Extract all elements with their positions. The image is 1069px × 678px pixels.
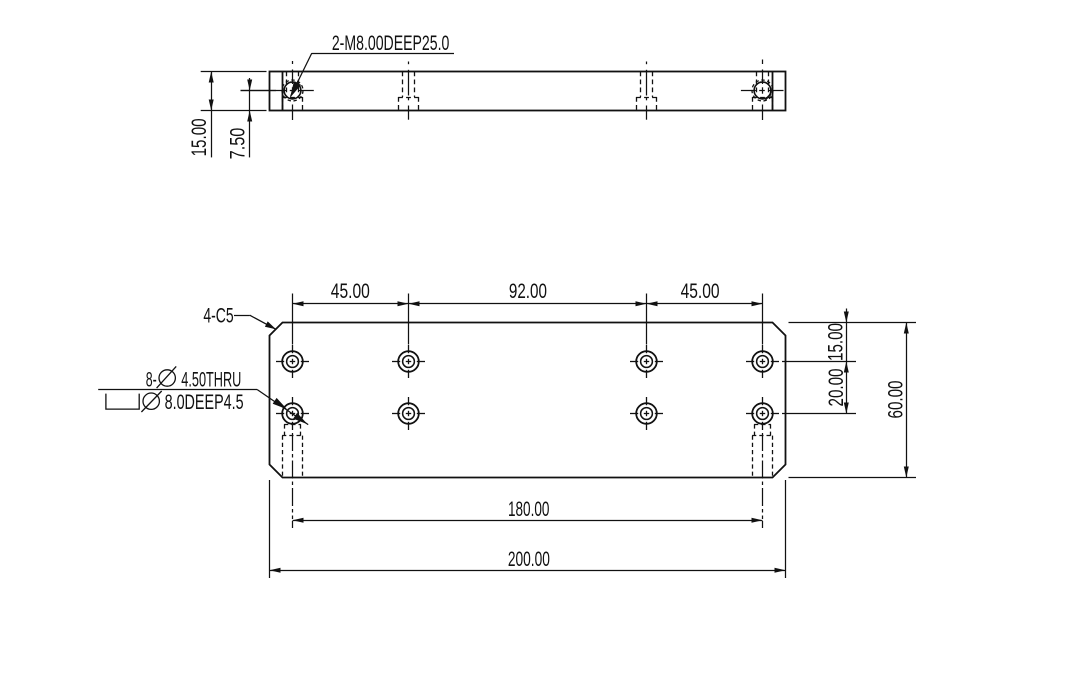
svg-text:60.00: 60.00	[885, 381, 908, 419]
plan view: counterbored hole 3 (top row)	[630, 345, 663, 378]
plan view: counterbored hole 2 (top row)	[392, 345, 425, 378]
label text 8- (count)	[146, 368, 157, 391]
dim text 92.00	[509, 280, 547, 303]
dim 180.00 arrows	[293, 518, 763, 523]
plan view: hidden M8 hole right (dashed, from bottom edge)	[752, 424, 773, 477]
top view: M8 tapped hole left - minor dia circle	[284, 82, 301, 99]
leader arrowhead at chamfer	[265, 321, 276, 329]
dim 15.00/20.00 dimension line	[846, 309, 848, 414]
label text 8.0DEEP4.5	[165, 391, 244, 414]
dim 200.00 arrows	[270, 568, 786, 573]
plan view: counterbored hole 7 (bottom row)	[630, 397, 663, 430]
svg-text:15.00: 15.00	[825, 323, 848, 361]
top view: right chamfer edge line	[772, 72, 774, 111]
svg-text:8.0DEEP4.5: 8.0DEEP4.5	[165, 391, 244, 414]
top view: third counterbore hidden box (dia 8 deep 4.5)	[636, 97, 657, 111]
svg-text:4.50THRU: 4.50THRU	[181, 368, 241, 391]
dim text 60.00	[885, 381, 908, 419]
top view: second counterbore hole hidden lines (dia 4.5 thru)	[403, 72, 415, 98]
dim text 15.00 (top view)	[188, 118, 211, 156]
top view: M8 right thread runout dash	[765, 95, 771, 101]
dim 15.00/20.00 extension lines	[782, 323, 916, 414]
top view: third hole vertical centerline	[646, 62, 648, 120]
plan view: column 3 centerline	[646, 294, 648, 345]
dim line 45/92/45 (horizontal)	[293, 303, 763, 305]
dim 60.00 arrows	[904, 323, 909, 478]
dim 15.00/20.00 arrows	[844, 312, 849, 414]
dim 60.00 extension line (bottom)	[789, 477, 917, 479]
leader line for counterbore callout	[98, 390, 308, 425]
top view: third counterbore hole hidden lines (dia 4.5 thru)	[641, 72, 653, 98]
dim 200.00 extension lines	[270, 480, 786, 578]
top view: right counterbore hidden lines (dia 4.5)	[757, 72, 769, 98]
diameter symbol (line 2)	[141, 391, 161, 412]
top view: second counterbore hidden box (dia 8 deep 4.5)	[398, 97, 419, 111]
label text 4.50THRU	[181, 368, 241, 391]
plan view: plate outline with 4 chamfered corners	[270, 323, 786, 478]
plan view: counterbored hole 1 (top row)	[276, 345, 309, 378]
dim 7.50 dimension line	[249, 78, 251, 157]
dim 15.00 (top view) arrows	[209, 72, 214, 111]
dim 7.50 arrows	[247, 80, 252, 122]
leader line for M8 callout	[291, 53, 455, 96]
top view: M8 tapped hole left - thread circle (dashed)	[282, 80, 303, 101]
plan view: counterbored hole 4 (top row)	[746, 345, 779, 378]
dim text 45.00 (left)	[331, 280, 370, 303]
dim text 7.50	[227, 128, 250, 160]
leader arrowhead at M8 hole	[290, 81, 301, 98]
svg-text:20.00: 20.00	[825, 369, 848, 407]
top view: M8 left horizontal centerline	[241, 90, 314, 92]
plan view: column 1 centerline (vertical dash-dot)	[292, 294, 294, 529]
svg-text:45.00: 45.00	[681, 280, 720, 303]
dim text 200.00	[508, 548, 550, 571]
top view: M8 right horizontal centerline	[741, 90, 784, 92]
plan view: counterbored hole 8 (bottom row)	[746, 397, 779, 430]
label text 2-M8.00DEEP25.0	[332, 32, 450, 55]
plan view: counterbored hole 6 (bottom row)	[392, 397, 425, 430]
top view: left counterbore hidden lines (dia 4.5)	[287, 72, 299, 98]
plan view: hidden M8 hole left (dashed, from bottom edge)	[282, 424, 303, 477]
svg-text:2-M8.00DEEP25.0: 2-M8.00DEEP25.0	[332, 32, 450, 55]
plan view: counterbored hole 5 (bottom row)	[276, 397, 309, 430]
leader arrowheads on counterbore leader	[273, 398, 308, 424]
svg-text:15.00: 15.00	[188, 118, 211, 156]
top view: M8 tapped hole right - minor dia circle	[754, 82, 771, 99]
top view: left chamfer edge line	[282, 72, 284, 111]
svg-text:4-C5: 4-C5	[203, 304, 233, 327]
counterbore symbol	[106, 394, 139, 410]
svg-text:7.50: 7.50	[227, 128, 250, 160]
svg-text:180.00: 180.00	[508, 498, 549, 521]
top view: second hole vertical centerline	[408, 62, 410, 120]
dim 180.00 dimension line	[293, 520, 763, 522]
top view: M8 right vertical centerline	[762, 60, 764, 121]
dim 15.00 (top view) dimension line	[211, 72, 213, 158]
plan view: column 4 centerline (vertical dash-dot)	[762, 294, 764, 529]
dim 60.00 dimension line	[906, 323, 908, 478]
top view: left counterbore hidden box (dia 8)	[282, 97, 303, 111]
dim 200.00 dimension line	[270, 570, 786, 572]
svg-text:92.00: 92.00	[509, 280, 547, 303]
dim 15.00 (top view) extension lines	[201, 72, 267, 111]
dim text 20.00	[825, 369, 848, 407]
top view: bar outline (side elevation of plate)	[270, 72, 786, 111]
dim text 15.00 (plan right)	[825, 323, 848, 361]
top view: right counterbore hidden box (dia 8)	[752, 97, 773, 111]
diameter symbol (line 1)	[157, 366, 177, 388]
label text 4-C5	[203, 304, 233, 327]
plan view: column 2 centerline	[408, 294, 410, 345]
dim text 180.00	[508, 498, 549, 521]
svg-text:8-: 8-	[146, 368, 157, 391]
top view: M8 tapped hole right - thread circle (dashed)	[752, 80, 773, 101]
svg-text:200.00: 200.00	[508, 548, 550, 571]
leader line for chamfer callout 4-C5	[234, 315, 275, 329]
dim text 45.00 (right)	[681, 280, 720, 303]
svg-text:45.00: 45.00	[331, 280, 370, 303]
dim 7.50 extension line	[241, 90, 277, 92]
dim 45/92/45 arrows	[293, 301, 763, 306]
top view: M8 left vertical centerline	[292, 61, 294, 120]
